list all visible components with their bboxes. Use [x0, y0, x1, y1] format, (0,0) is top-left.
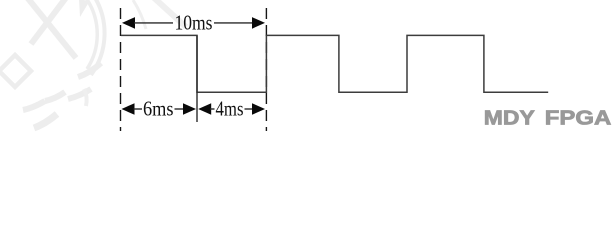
- 4ms dimension arrow left head: [198, 103, 211, 115]
- svg-text:FPGA: FPGA: [545, 107, 612, 129]
- 10ms dimension arrow right shaft: [214, 22, 254, 24]
- 4ms dimension arrow right shaft: [245, 108, 254, 110]
- watermark swoosh 5: [34, 114, 57, 128]
- svg-text:6ms: 6ms: [143, 97, 174, 121]
- watermark swoosh 4: [23, 101, 45, 110]
- 10ms dimension arrow right head: [252, 17, 265, 29]
- 6ms dimension arrow left head: [122, 103, 135, 115]
- waveform trace: [121, 35, 548, 92]
- 6ms dimension arrow left shaft: [134, 108, 143, 110]
- watermark stroke X line A: [26, 0, 76, 58]
- dashed reference line left: [120, 8, 122, 131]
- watermark diamond: [0, 55, 31, 87]
- watermark ring inner arc: [86, 0, 97, 69]
- watermark thin outer arc top: [133, 0, 146, 29]
- svg-text:10ms: 10ms: [175, 11, 213, 35]
- 4ms dimension arrow left shaft: [210, 108, 215, 110]
- watermark swoosh 2: [68, 89, 91, 99]
- 4ms dimension arrow right head: [252, 103, 265, 115]
- watermark flare top-right: [79, 0, 89, 17]
- dashed reference line right: [265, 8, 267, 131]
- 6ms dimension arrow right shaft: [175, 108, 186, 110]
- 10ms dimension arrow left head: [122, 17, 135, 29]
- svg-text:4ms: 4ms: [216, 97, 244, 121]
- 10ms dimension arrow left shaft: [134, 22, 173, 24]
- watermark diagonal near 10ms: [152, 0, 186, 27]
- watermark ring outer arc: [91, 0, 105, 75]
- watermark swoosh 1: [78, 63, 101, 77]
- watermark stroke X line B: [31, 0, 68, 44]
- divider line 6ms/4ms boundary: [196, 35, 198, 122]
- watermark small mark right: [84, 89, 87, 106]
- svg-text:MDY: MDY: [484, 107, 536, 129]
- 6ms dimension arrow right head: [183, 103, 196, 115]
- watermark swoosh 3: [45, 92, 65, 101]
